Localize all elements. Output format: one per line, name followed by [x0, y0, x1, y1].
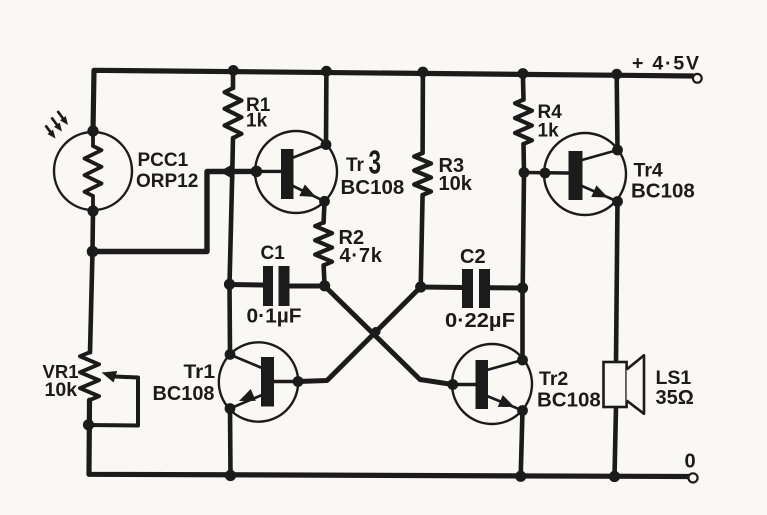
- wire C2 right lead: [490, 285, 523, 290]
- svg-text:BC108: BC108: [341, 176, 405, 199]
- svg-text:BC108: BC108: [153, 382, 215, 405]
- transistor Tr1 base bar: [261, 357, 274, 407]
- transistor Tr2 circle: [452, 344, 532, 424]
- capacitor C2 right plate: [479, 269, 490, 308]
- wire R1 top lead: [231, 70, 236, 88]
- transistor Tr2 emitter lead: [487, 396, 523, 411]
- wire top +4.5V rail: [93, 70, 693, 131]
- wire Tr4 emitter down to LS1: [616, 202, 618, 363]
- wire R1 bottom to base node: [230, 138, 235, 172]
- wire R4 bottom to Tr4 base node: [521, 144, 526, 173]
- node Tr4 base: [540, 168, 551, 179]
- wire Tr3 emitter to R2: [321, 201, 326, 222]
- svg-text:3: 3: [369, 144, 382, 181]
- wire bottom 0V rail with left vertical from VR1: [89, 400, 689, 476]
- wire left vertical PCC1 to VR1: [90, 211, 93, 352]
- resistor R4 zigzag: [515, 100, 532, 144]
- svg-text:Tr2: Tr2: [539, 368, 568, 390]
- transistor Tr3 collector lead: [292, 145, 326, 158]
- capacitor C1 right plate: [279, 266, 290, 306]
- node bottom rail Tr2: [515, 471, 526, 482]
- svg-text:10k: 10k: [439, 173, 473, 195]
- wire Tr2 emitter to bottom rail: [521, 411, 523, 477]
- transistor Tr4 emitter lead: [582, 186, 618, 202]
- transistor Tr3 emitter lead: [292, 186, 325, 202]
- transistor Tr2 collector lead: [487, 360, 523, 370]
- node VR1 wiper return: [83, 419, 94, 430]
- transistor Tr1 emitter lead: [230, 395, 262, 409]
- wire Tr1 emitter to bottom rail: [228, 409, 233, 476]
- svg-text:ORP12: ORP12: [136, 171, 198, 192]
- light arrow 1: [46, 126, 59, 141]
- junction arrow at R1 base node: [220, 163, 235, 180]
- wire cross-couple C1 right to Tr2 base: [325, 286, 453, 385]
- node C2 right: [517, 282, 528, 293]
- wire C2 left lead: [421, 285, 462, 291]
- wire Tr4 base node down to C2 right: [523, 173, 524, 289]
- terminal +4.5V: [693, 74, 702, 83]
- svg-text:Tr1: Tr1: [184, 361, 216, 383]
- svg-text:C2: C2: [460, 246, 486, 268]
- node bottom rail LS1: [609, 471, 620, 482]
- svg-text:35Ω: 35Ω: [656, 387, 694, 409]
- transistor Tr3 base lead: [256, 170, 281, 173]
- node Tr1 emitter: [225, 403, 236, 414]
- node C2 left: [415, 281, 426, 292]
- wire VR1 wiper loop: [89, 377, 139, 426]
- photocell PCC1 circle: [54, 132, 132, 210]
- transistor Tr4 circle: [544, 133, 626, 215]
- wire R3 top lead: [420, 72, 425, 153]
- capacitor C2 left plate: [462, 269, 473, 308]
- svg-text:BC108: BC108: [537, 389, 601, 412]
- transistor Tr4 emitter arrowhead: [591, 185, 610, 203]
- node top rail Tr4 collector: [611, 69, 622, 80]
- transistor Tr4 collector lead: [582, 150, 618, 160]
- svg-text:1k: 1k: [246, 111, 268, 132]
- wire base node down to C1 left: [230, 172, 233, 285]
- svg-text:Tr4: Tr4: [634, 160, 663, 182]
- node bottom rail Tr1: [225, 470, 236, 481]
- svg-text:0·1µF: 0·1µF: [247, 306, 302, 328]
- transistor Tr4 base bar: [569, 151, 583, 200]
- transistor Tr3 base bar: [281, 149, 294, 199]
- speaker LS1 horn: [627, 355, 644, 414]
- svg-text:0·22µF: 0·22µF: [445, 310, 515, 332]
- node PCC1 bottom: [87, 205, 98, 216]
- resistor R3 zigzag: [414, 153, 431, 195]
- svg-text:4·7k: 4·7k: [340, 245, 383, 267]
- node Tr1 collector: [225, 349, 236, 360]
- node R4 base junction: [519, 167, 530, 178]
- transistor Tr1 circle: [219, 342, 298, 421]
- node Tr2 emitter: [517, 405, 528, 416]
- transistor Tr3 emitter arrowhead: [299, 184, 319, 202]
- transistor Tr1 emitter arrowhead: [236, 389, 255, 407]
- wire C1 right lead: [290, 284, 325, 289]
- wire Tr4 collector to rail: [614, 75, 619, 151]
- svg-text:Tr: Tr: [346, 155, 365, 176]
- wire PCC1 junction to Tr3 base: [93, 171, 257, 251]
- wire R3 bottom to C2 left node: [421, 195, 423, 287]
- light arrow 3: [58, 111, 71, 127]
- transistor Tr1 base lead: [274, 380, 298, 383]
- svg-text:LS1: LS1: [656, 367, 692, 389]
- node PCC1 top: [87, 125, 98, 136]
- node Tr1 base: [293, 376, 304, 387]
- wire Tr3 collector to rail: [324, 71, 329, 145]
- svg-text:0: 0: [685, 451, 696, 473]
- capacitor C1 left plate: [263, 266, 273, 306]
- node top rail R4: [518, 68, 529, 79]
- svg-text:1k: 1k: [538, 121, 560, 142]
- svg-text:C1: C1: [261, 243, 286, 264]
- wire C1 left down to Tr1 collector: [227, 284, 232, 354]
- wire C2 right down to Tr2 collector: [520, 288, 525, 360]
- node Tr4 emitter: [612, 196, 623, 207]
- node top rail R1: [228, 65, 239, 76]
- wire cross-couple C2 left to Tr1 base: [298, 287, 421, 382]
- resistor R1 zigzag: [225, 88, 242, 138]
- node Tr3 emitter: [319, 196, 330, 207]
- node top rail Tr3 collector: [321, 66, 332, 77]
- terminal 0V: [688, 473, 697, 482]
- wire R4 top lead: [521, 74, 526, 100]
- svg-text:BC108: BC108: [631, 180, 695, 203]
- node top rail R3: [418, 67, 429, 78]
- transistor Tr2 base bar: [476, 360, 489, 409]
- wire LS1 to bottom rail: [615, 407, 617, 477]
- svg-text:10k: 10k: [45, 379, 78, 401]
- VR1 wiper arrowhead: [100, 367, 117, 383]
- node C1 right: [319, 280, 330, 291]
- node Tr2 base: [447, 379, 458, 390]
- node Tr3 base: [251, 166, 263, 178]
- photocell PCC1 zigzag and leads: [85, 131, 102, 211]
- node Tr4 collector: [612, 145, 623, 156]
- transistor Tr2 emitter arrowhead: [498, 395, 517, 413]
- node Tr3 collector: [321, 139, 332, 150]
- transistor Tr1 collector lead: [230, 355, 262, 368]
- resistor R2 zigzag: [315, 223, 332, 266]
- node cross junction: [371, 327, 380, 336]
- transistor Tr3 circle: [255, 131, 337, 213]
- light arrow 2: [52, 118, 65, 134]
- node PCC1 junction: [87, 246, 99, 258]
- transistor Tr4 base lead: [524, 171, 569, 175]
- transistor Tr2 base lead: [453, 383, 476, 386]
- svg-text:+ 4·5V: + 4·5V: [632, 53, 701, 75]
- node Tr2 collector: [517, 355, 528, 366]
- potentiometer VR1 zigzag: [80, 352, 99, 400]
- speaker LS1 box: [604, 362, 627, 407]
- svg-text:PCC1: PCC1: [138, 150, 189, 171]
- wire C1 left lead: [230, 282, 264, 288]
- node C1 left: [224, 279, 235, 290]
- wire R2 bottom to C1 right node: [324, 265, 325, 286]
